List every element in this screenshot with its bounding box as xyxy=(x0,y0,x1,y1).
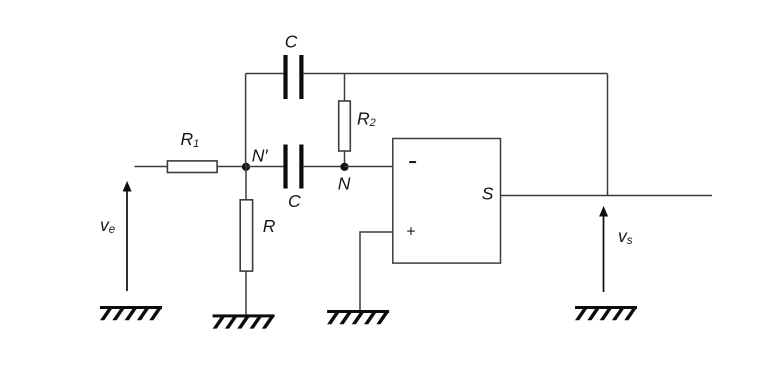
svg-text:+: + xyxy=(406,223,415,240)
resistor R2 xyxy=(339,74,376,167)
ground (output reference) xyxy=(575,306,637,320)
label S (op-amp) xyxy=(482,184,494,204)
op-amp U1 (block S) xyxy=(393,139,501,264)
wire: top rail right of capacitor C xyxy=(303,73,608,75)
ground (below R) xyxy=(213,314,275,328)
svg-text:C: C xyxy=(288,191,301,211)
svg-text:vs: vs xyxy=(618,226,633,247)
wire: R1 to node N' xyxy=(217,166,246,168)
node N' xyxy=(242,145,269,171)
wire: N' to coupling capacitor C xyxy=(246,166,284,168)
ground (non-inverting input) xyxy=(327,310,389,324)
svg-text:R1: R1 xyxy=(181,129,200,150)
svg-text:N: N xyxy=(338,174,351,194)
svg-text:N′: N′ xyxy=(252,145,269,165)
wire: input to R1 xyxy=(135,166,169,168)
wire: non-inverting input to ground xyxy=(360,232,393,310)
source arrow vs xyxy=(599,206,633,292)
node N xyxy=(338,163,351,194)
wire: capacitor C to node N xyxy=(303,166,345,168)
op-amp U1 non-inverting input marker (+) xyxy=(406,223,415,240)
svg-text:C: C xyxy=(285,31,298,51)
svg-text:R: R xyxy=(263,216,276,236)
resistor R1 xyxy=(167,129,217,173)
ground (input source) xyxy=(100,306,162,320)
svg-text:S: S xyxy=(482,184,494,204)
wire: feedback from output node up to top rail xyxy=(607,74,609,196)
wire: node N to op-amp inverting input xyxy=(345,166,393,168)
svg-text:R2: R2 xyxy=(357,109,376,130)
wire: top rail left of capacitor C xyxy=(246,73,284,75)
resistor R xyxy=(240,167,276,315)
capacitor C (top feedback) xyxy=(283,31,303,99)
op-amp U1 inverting input marker (-) xyxy=(409,161,416,163)
source arrow ve xyxy=(100,181,132,291)
capacitor C (series coupling) xyxy=(283,145,303,212)
wire: riser from N' to top rail xyxy=(245,74,247,167)
wire: op-amp output line xyxy=(501,195,713,197)
svg-text:ve: ve xyxy=(100,215,115,236)
